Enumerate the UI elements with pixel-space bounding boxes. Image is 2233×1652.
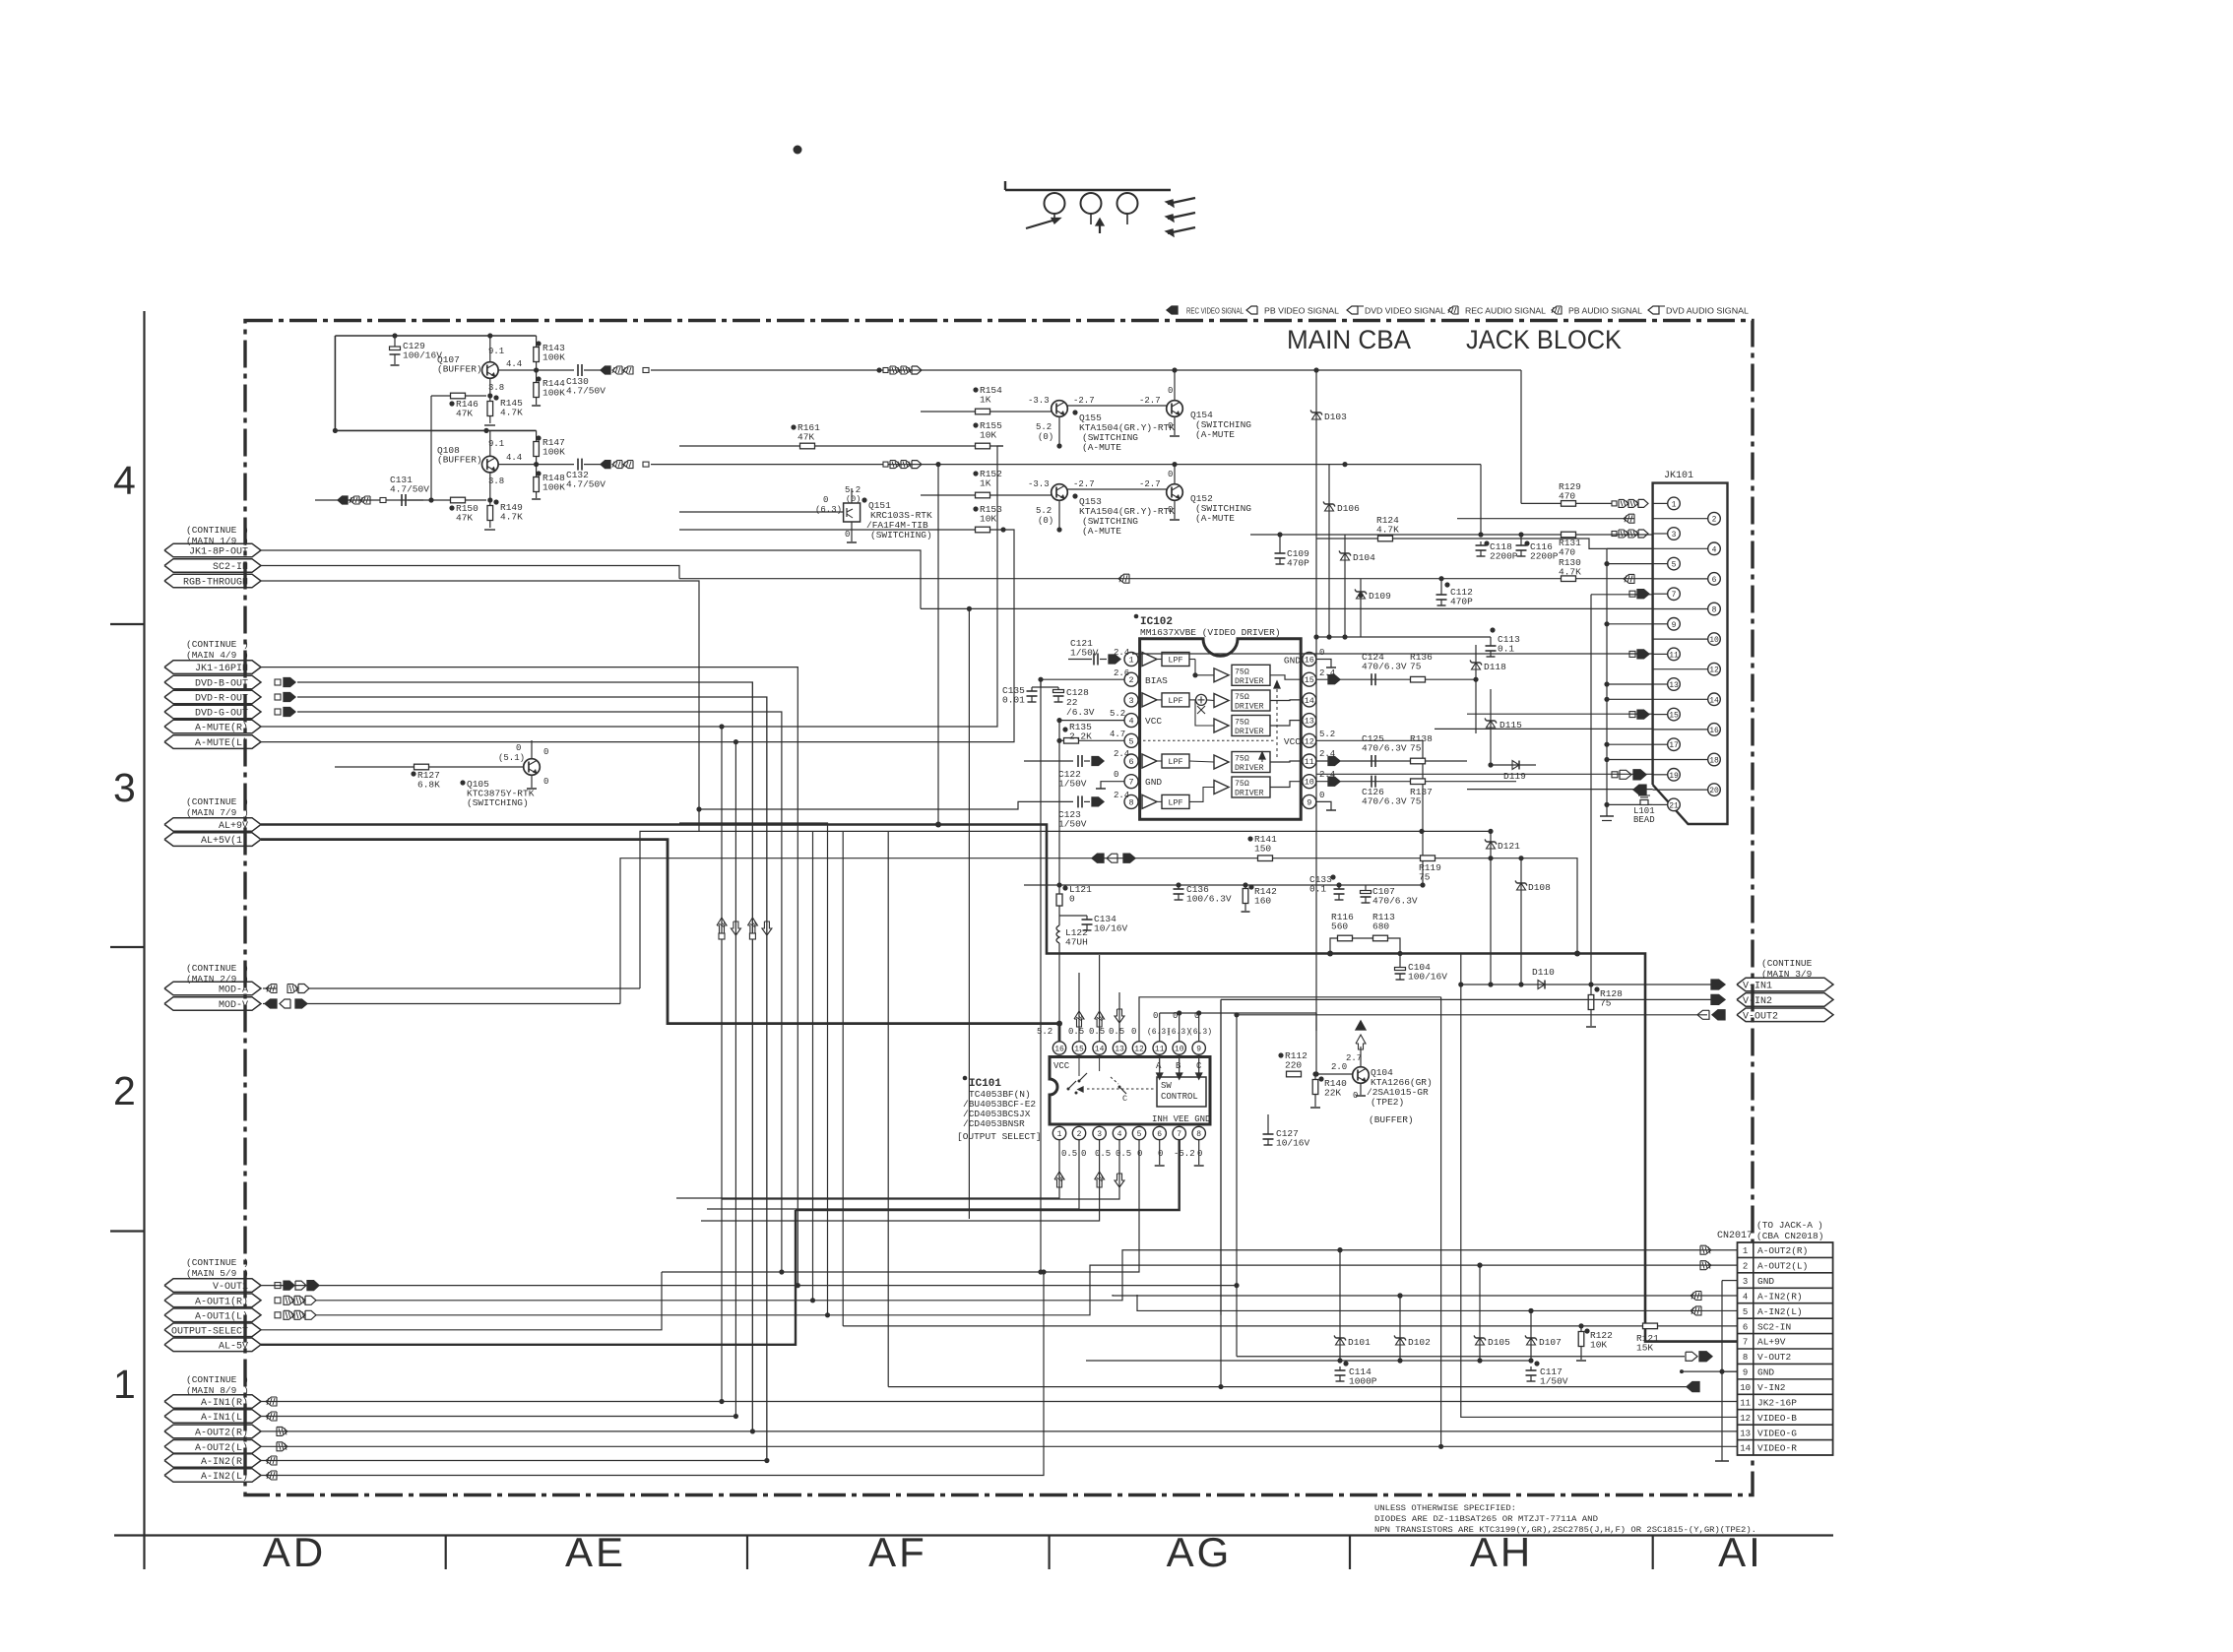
svg-text:-2.7: -2.7 [1139, 396, 1161, 406]
svg-text:V-OUT1: V-OUT1 [213, 1282, 248, 1293]
svg-text:PB VIDEO SIGNAL: PB VIDEO SIGNAL [1264, 307, 1340, 316]
IC101 pin 9 [1192, 1042, 1205, 1054]
CN2017 ground bus [1721, 1281, 1723, 1461]
svg-text:INH VEE GND: INH VEE GND [1152, 1114, 1210, 1124]
wire Q108 base [489, 473, 491, 500]
svg-text:5.2: 5.2 [1037, 1027, 1053, 1037]
resistor R131 [1562, 532, 1576, 538]
svg-text:0: 0 [516, 743, 521, 753]
arrow CN2017 row5 [1691, 1306, 1701, 1315]
svg-text:4.7K: 4.7K [500, 408, 523, 418]
svg-text:8: 8 [1743, 1353, 1748, 1363]
svg-text:(6.3): (6.3) [1188, 1028, 1212, 1037]
flag arrows V-OUT1 [275, 1283, 281, 1289]
wire Q153 out [1067, 488, 1166, 490]
svg-text:): ) [243, 1268, 249, 1279]
wire CN row6 [843, 1325, 1737, 1327]
diode bus D106 [1328, 465, 1330, 637]
svg-text:(BUFFER): (BUFFER) [437, 455, 482, 466]
svg-text:10K: 10K [980, 430, 996, 441]
arrow JK101 pin 7 [1629, 591, 1635, 597]
svg-text:3: 3 [1672, 531, 1677, 540]
diode D107 [1530, 1310, 1532, 1361]
arrow JK101 pin6 [1624, 574, 1634, 583]
svg-text:): ) [243, 1374, 249, 1385]
svg-text:7: 7 [1743, 1338, 1748, 1348]
svg-text:150: 150 [1254, 844, 1271, 855]
svg-text:47K: 47K [797, 432, 814, 443]
IC IC102 label [1134, 614, 1139, 619]
left ruler line [143, 311, 145, 1569]
svg-text:5.2: 5.2 [1036, 506, 1052, 516]
svg-text:/6.3V: /6.3V [1066, 707, 1095, 718]
svg-text:1/50V: 1/50V [1058, 819, 1087, 830]
svg-text:1/50V: 1/50V [1058, 779, 1087, 790]
arrow CN2017 row4 [1691, 1292, 1701, 1301]
wire pin4 [1059, 720, 1124, 722]
flag arrows A-OUT1 [275, 1298, 281, 1303]
svg-text:4.4: 4.4 [506, 453, 522, 463]
svg-text:D105: D105 [1488, 1337, 1510, 1348]
svg-text:12: 12 [1305, 736, 1314, 746]
JK101 pin 20 [1653, 789, 1708, 791]
diode D101 [1339, 1250, 1341, 1361]
svg-text:1K: 1K [980, 395, 991, 406]
IC101 pin 13 [1113, 1042, 1125, 1054]
svg-text:JK101: JK101 [1664, 471, 1693, 481]
svg-text:75: 75 [1410, 662, 1422, 672]
svg-text:7: 7 [1177, 1130, 1181, 1139]
svg-text:D119: D119 [1503, 771, 1526, 782]
svg-text:13: 13 [1305, 717, 1314, 727]
flag arrow A-IN [266, 1471, 277, 1480]
IC102 pin 9 [1303, 794, 1316, 808]
svg-text:3.8: 3.8 [488, 477, 504, 486]
diode D105 [1479, 1265, 1481, 1361]
wire CN row10 [1220, 999, 1222, 1386]
JK101 pin 5 [1653, 563, 1668, 565]
resistor R121 [1643, 1323, 1658, 1329]
svg-text:2.2K: 2.2K [1069, 731, 1092, 742]
resistor R145 [489, 396, 491, 401]
bottom ruler tick [746, 1536, 748, 1570]
svg-text:14: 14 [1095, 1046, 1105, 1054]
svg-text:3.8: 3.8 [488, 383, 504, 393]
wire Q105 emitter [531, 775, 533, 788]
IC102 pin 16 [1303, 653, 1316, 667]
svg-text:AF: AF [868, 1529, 927, 1575]
svg-text:A-OUT2(R): A-OUT2(R) [195, 1428, 248, 1439]
svg-text:CN2017: CN2017 [1717, 1231, 1753, 1241]
svg-text:A-OUT2(L): A-OUT2(L) [1757, 1261, 1808, 1272]
wire video2 corner [1480, 465, 1482, 535]
svg-text:SW: SW [1161, 1081, 1172, 1091]
wire Q153 emitter [1058, 500, 1060, 530]
svg-text:16: 16 [1709, 727, 1719, 735]
svg-text:-5.2: -5.2 [1174, 1149, 1195, 1159]
svg-text:GND: GND [1757, 1367, 1774, 1378]
vertical x779 [766, 697, 768, 1461]
flag V-IN1 [1737, 978, 1833, 991]
svg-text:A-IN2(R): A-IN2(R) [201, 1456, 248, 1468]
svg-text:9: 9 [1196, 1046, 1201, 1054]
svg-text:2.0: 2.0 [1331, 1062, 1347, 1072]
wire bus y899 [1024, 884, 1422, 886]
svg-text:0: 0 [1081, 1149, 1086, 1159]
svg-text:0.5: 0.5 [1061, 1149, 1077, 1159]
wire Q104 emitter [1360, 1083, 1362, 1095]
wire MOD-V [263, 1003, 277, 1005]
svg-text:8: 8 [1196, 1130, 1201, 1139]
wire JK1-16PIN [261, 667, 797, 1286]
wire Q152 collector [1174, 465, 1176, 484]
svg-text:3: 3 [1128, 696, 1133, 706]
resistor R140 [1312, 1071, 1317, 1076]
svg-text:A-IN1(R): A-IN1(R) [201, 1397, 248, 1409]
IC101 pin4 wire [722, 1140, 1119, 1199]
JK101 pin 4 [1653, 547, 1708, 549]
wire Q107 emitter out [498, 369, 574, 371]
wire JK101 pin 13 [1607, 683, 1653, 685]
wire Q155 emitter [1058, 416, 1060, 446]
svg-text:75Ω: 75Ω [1235, 719, 1249, 728]
svg-text:16: 16 [1305, 656, 1314, 666]
flag V-IN2 [1737, 993, 1833, 1007]
svg-text:MOD-A: MOD-A [219, 985, 248, 996]
diode D108 [1520, 858, 1522, 985]
wire V-OUT2 line [1237, 1014, 1707, 1016]
svg-text:A-OUT1(R): A-OUT1(R) [195, 1296, 248, 1307]
svg-text:0.5: 0.5 [1109, 1027, 1124, 1037]
flag JK1-16PIN [164, 661, 261, 674]
svg-text:10/16V: 10/16V [1276, 1138, 1310, 1149]
svg-text:0.5: 0.5 [1116, 1149, 1131, 1159]
svg-text:A-IN2(R): A-IN2(R) [1757, 1291, 1803, 1302]
svg-text:GND: GND [1284, 656, 1301, 667]
svg-text:): ) [1818, 1220, 1823, 1231]
IC102 LPF block [1162, 653, 1189, 667]
svg-text:(CONTINUE: (CONTINUE [186, 796, 237, 807]
svg-text:): ) [243, 963, 249, 974]
svg-text:2.7: 2.7 [1346, 1053, 1362, 1063]
svg-text:): ) [243, 796, 249, 807]
svg-text:(TPE2): (TPE2) [1371, 1097, 1404, 1108]
IC101 pin 12 [1132, 1042, 1145, 1054]
svg-text:6: 6 [1743, 1322, 1748, 1332]
wire A-OUT2-R row13 [261, 1430, 1738, 1432]
svg-text:16: 16 [1054, 1046, 1064, 1054]
resistor R150 [451, 497, 466, 503]
transistor Q108 [482, 456, 499, 473]
capacitor C136 [1178, 885, 1180, 889]
wire Q105 collector [531, 740, 533, 759]
svg-text:D108: D108 [1528, 882, 1551, 893]
wire AL9V trunk [261, 825, 1738, 1342]
IC101 pin2 wire [707, 1140, 1079, 1209]
svg-text:12: 12 [1134, 1046, 1144, 1054]
IC102 pin 2 [1124, 672, 1138, 686]
svg-text:V-IN2: V-IN2 [1743, 996, 1772, 1007]
svg-text:DRIVER: DRIVER [1235, 764, 1264, 773]
svg-text:VIDEO-G: VIDEO-G [1757, 1428, 1797, 1438]
wire DVD-B-OUT [297, 682, 752, 1431]
svg-text:(BUFFER): (BUFFER) [1369, 1114, 1414, 1125]
svg-text:2: 2 [1077, 1130, 1082, 1139]
wire Q151 top [851, 488, 853, 503]
svg-text:6: 6 [1712, 576, 1717, 585]
IC102 input amp [1142, 693, 1157, 707]
wire A-OUT1-L [316, 1265, 1738, 1315]
wire AL5V trunk [261, 840, 1059, 1042]
svg-text:21: 21 [1669, 801, 1679, 810]
transistor Q107 [482, 362, 499, 379]
svg-text:0: 0 [1153, 1011, 1158, 1021]
wire pin8 line [921, 607, 1653, 609]
transistor Q155 [1052, 401, 1068, 417]
svg-text:D107: D107 [1539, 1337, 1562, 1348]
svg-text:680: 680 [1372, 921, 1389, 932]
capacitor C132 [577, 459, 579, 471]
arrow on pin6 line [1118, 574, 1129, 583]
svg-text:0: 0 [1158, 1149, 1163, 1159]
IC102 pin 7 [1124, 775, 1138, 789]
svg-text:0: 0 [1168, 470, 1173, 479]
flag MOD-V [164, 997, 261, 1011]
svg-text:470P: 470P [1450, 597, 1473, 607]
JK101 pin 1 [1653, 502, 1668, 504]
IC101 pin 5 [1132, 1126, 1145, 1139]
svg-text:DRIVER: DRIVER [1235, 703, 1264, 712]
wire bus y953 [1330, 938, 1337, 954]
svg-text:4.7K: 4.7K [1559, 567, 1581, 578]
bottom ruler tick [1349, 1536, 1351, 1570]
wire Q108 collector [489, 430, 491, 456]
svg-text:DRIVER: DRIVER [1235, 728, 1264, 736]
svg-text:AD: AD [263, 1529, 326, 1575]
IC101 pin3 wire [701, 1140, 1100, 1221]
svg-text:D102: D102 [1408, 1337, 1431, 1348]
diode bus D109 [1360, 579, 1362, 637]
dash-dot schematic border [245, 321, 1753, 1495]
svg-text:2: 2 [1712, 516, 1717, 525]
wire A-MUTE-L [261, 530, 1014, 742]
resistor R127 [415, 764, 429, 770]
svg-text:1: 1 [1128, 656, 1133, 666]
svg-text:(CONTINUE: (CONTINUE [186, 1257, 237, 1268]
flag RGB-THROUGH [164, 574, 261, 588]
IC IC101 label [963, 1076, 968, 1081]
svg-text:4: 4 [1128, 717, 1133, 727]
svg-text:DVD VIDEO SIGNAL: DVD VIDEO SIGNAL [1365, 307, 1446, 316]
wire A-IN2-R [261, 1460, 767, 1462]
wire Q155 out [1067, 405, 1166, 407]
svg-text:3: 3 [1743, 1277, 1748, 1287]
svg-text:V-OUT2: V-OUT2 [1757, 1352, 1792, 1363]
wire video1 corner [1520, 370, 1522, 503]
wire A-OUT2-L row14 [261, 1445, 1738, 1447]
arrow CN2017 row2 [1700, 1261, 1711, 1270]
wire pin7 line [1591, 594, 1653, 596]
resistor R124 [1316, 538, 1377, 540]
bottom ruler tick [1652, 1536, 1654, 1570]
svg-text:75Ω: 75Ω [1235, 693, 1249, 702]
legend DVD AUDIO SIGNAL [1648, 306, 1659, 314]
IC102 pin7 ground [1101, 782, 1124, 789]
svg-text:6: 6 [1157, 1130, 1162, 1139]
svg-text:DVD AUDIO SIGNAL: DVD AUDIO SIGNAL [1666, 307, 1750, 316]
svg-text:-2.7: -2.7 [1073, 479, 1095, 489]
vertical x1616 [1590, 595, 1592, 985]
vertical x840 [679, 823, 828, 1315]
JK101 pin 16 [1653, 729, 1708, 731]
IC102 LPF block [1162, 693, 1189, 707]
IC IC101 body [1050, 1057, 1210, 1125]
svg-text:A: A [1156, 1061, 1162, 1071]
svg-text:BEAD: BEAD [1633, 815, 1655, 825]
svg-text:V-OUT2: V-OUT2 [1743, 1011, 1778, 1022]
wire pins9-10 bus [1160, 1012, 1180, 1014]
wire rgb branch [699, 801, 1024, 809]
flag arrow DVD out [275, 694, 281, 700]
svg-text:(SWITCHING): (SWITCHING) [467, 797, 529, 808]
arrow V-IN1 [1711, 980, 1725, 989]
svg-text:(A-MUTE: (A-MUTE [1082, 442, 1121, 453]
svg-text:(TO JACK-A: (TO JACK-A [1756, 1220, 1813, 1231]
resistor R143 [536, 336, 538, 347]
svg-text:470/6.3V: 470/6.3V [1362, 796, 1407, 807]
svg-text:0: 0 [1168, 386, 1173, 396]
IC101 pin7 wire [796, 1140, 1180, 1210]
svg-text:11: 11 [1155, 1046, 1165, 1054]
capacitor C114 [1339, 1366, 1341, 1370]
diode bus D103 [1315, 370, 1317, 637]
legend DVD VIDEO SIGNAL [1347, 306, 1358, 314]
bottom ruler tick [1048, 1536, 1050, 1570]
svg-text:(MAIN 1/9: (MAIN 1/9 [186, 536, 237, 546]
svg-text:(CONTINUE: (CONTINUE [186, 1374, 237, 1385]
svg-text:(CONTINUE: (CONTINUE [186, 963, 237, 974]
svg-text:2: 2 [113, 1068, 136, 1113]
IC101 pin6 gnd [1159, 1140, 1161, 1165]
svg-text:75: 75 [1410, 796, 1422, 807]
IC101 pin12 wire [1139, 997, 1441, 1042]
svg-text:5: 5 [1128, 736, 1133, 746]
svg-text:14: 14 [1740, 1444, 1751, 1454]
rail Q108 [335, 429, 536, 431]
svg-text:8: 8 [1128, 797, 1133, 807]
wire Q104 collector [1360, 1047, 1362, 1067]
svg-text:(CBA CN2018): (CBA CN2018) [1756, 1231, 1823, 1241]
IC102 pin 14 [1303, 693, 1316, 707]
wire AL-5V [261, 1210, 796, 1345]
legend PB VIDEO SIGNAL [1246, 306, 1257, 314]
IC102 pin 1 [1124, 653, 1138, 667]
arrow CN2017 row1 [1700, 1245, 1711, 1254]
wire bus y871 [620, 858, 1577, 1004]
svg-text:13: 13 [1740, 1429, 1751, 1438]
svg-text:BIAS: BIAS [1145, 675, 1168, 686]
svg-text:12: 12 [1740, 1414, 1751, 1424]
IC102 LPF block [1162, 754, 1189, 768]
wire bus y844 [640, 831, 1491, 988]
svg-text:VIDEO-R: VIDEO-R [1757, 1443, 1797, 1454]
IC102 pin 12 [1303, 733, 1316, 747]
resistor R147 [536, 430, 538, 441]
transistor Q104 [1353, 1067, 1370, 1084]
svg-text:-2.7: -2.7 [1073, 396, 1095, 406]
svg-text:LPF: LPF [1168, 656, 1182, 666]
svg-text:0: 0 [543, 747, 548, 757]
wire pin11 line [1132, 653, 1653, 655]
wire diode collect [1316, 636, 1491, 638]
flag DVD-B-OUT [164, 675, 261, 689]
svg-text:VIDEO-B: VIDEO-B [1757, 1413, 1797, 1424]
IC102 LPF block [1162, 794, 1189, 808]
IC102 pin 11 [1303, 754, 1316, 768]
wire CN row5 [1137, 1295, 1738, 1310]
svg-text:A-OUT2(L): A-OUT2(L) [195, 1442, 248, 1454]
svg-text:0: 0 [1197, 1149, 1202, 1159]
svg-text:18: 18 [1709, 757, 1719, 766]
IC101 pin1 wire [676, 1140, 1059, 1198]
svg-text:1/50V: 1/50V [1070, 648, 1099, 659]
svg-text:47K: 47K [456, 409, 473, 419]
resistor R128 [1590, 985, 1592, 994]
bus arrows video1b [883, 368, 888, 373]
svg-text:4.4: 4.4 [506, 359, 522, 369]
svg-text:A-IN1(L): A-IN1(L) [201, 1412, 248, 1424]
wire Q104 base line [1316, 1013, 1353, 1074]
wire R146 vertical [430, 396, 432, 500]
wire pin19 line [1316, 773, 1653, 775]
legend REC VIDEO SIGNAL [1167, 306, 1178, 314]
svg-text:10: 10 [1740, 1383, 1751, 1393]
svg-text:2.6: 2.6 [1114, 668, 1129, 678]
svg-text:12: 12 [1709, 667, 1719, 675]
wire V-OUT1 [261, 1015, 1237, 1286]
svg-text:20: 20 [1709, 787, 1719, 795]
vertical x984 [968, 608, 970, 1219]
flag DVD-R-OUT [164, 690, 261, 704]
wire VIDEO-R x1463 [1440, 997, 1442, 1447]
flag arrow A-OUT2 [277, 1427, 287, 1435]
svg-text:0: 0 [1168, 505, 1173, 515]
flag AL+5V(1) [164, 833, 261, 847]
wire pin10 output [1316, 781, 1516, 783]
resistor R153 [976, 527, 990, 533]
capacitor C107 [1365, 885, 1367, 888]
svg-text:2: 2 [1743, 1262, 1748, 1272]
svg-text:7: 7 [1128, 778, 1133, 788]
wire R153 line [679, 529, 1003, 531]
arrows JK101 pin3 [1612, 532, 1617, 537]
svg-text:OUTPUT-SELECT: OUTPUT-SELECT [171, 1326, 248, 1337]
svg-text:(MAIN 7/9: (MAIN 7/9 [186, 807, 237, 818]
JK101 pin 21 [1653, 803, 1668, 805]
wire CN row12 [1461, 954, 1738, 1418]
flag arrow DVD out [275, 709, 281, 715]
arrow V-OUT2 [1712, 1010, 1725, 1020]
svg-text:(BUFFER): (BUFFER) [437, 364, 482, 375]
svg-text:D103: D103 [1324, 412, 1347, 422]
wire pin6 SC2 line [679, 578, 1653, 580]
wire CN row8 [1236, 1286, 1238, 1357]
svg-text:): ) [243, 525, 249, 536]
capacitor C104 [1399, 954, 1401, 966]
svg-text:0: 0 [1168, 421, 1173, 431]
svg-text:8: 8 [1712, 606, 1717, 615]
flag A-OUT2(L) [164, 1440, 261, 1454]
